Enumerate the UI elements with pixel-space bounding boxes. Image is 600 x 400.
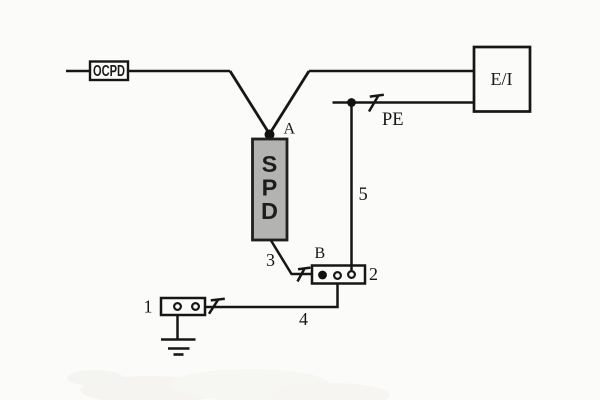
svg-text:2: 2	[369, 264, 378, 284]
svg-text:5: 5	[359, 185, 368, 205]
terminal circle (open, left)	[174, 303, 181, 310]
svg-text:D: D	[261, 198, 278, 224]
E/I equipment box	[474, 47, 530, 112]
PE junction dot	[347, 98, 356, 107]
svg-text:4: 4	[299, 309, 308, 329]
wire 5: vertical bonding conductor from PE junction down to block 2	[350, 103, 353, 272]
svg-text:1: 1	[144, 297, 153, 317]
svg-text:A: A	[284, 121, 296, 138]
wire: left diagonal down to node A	[230, 71, 270, 134]
ground lead from block 1	[176, 315, 179, 340]
terminal block 2 (equipotential bonding bar)	[312, 266, 365, 284]
PE wire: horizontal run to E/I	[333, 101, 475, 104]
svg-text:3: 3	[266, 250, 275, 270]
conductor tick on wire 3	[298, 268, 311, 282]
wire: left service lead into OCPD	[66, 70, 90, 73]
svg-text:OCPD: OCPD	[93, 63, 125, 80]
wire: top run to E/I box	[309, 70, 474, 73]
wire: right diagonal up from node A	[270, 71, 310, 134]
terminal block 1 (earthing bar)	[161, 298, 205, 315]
wire 4: from terminal block 1 to block 2 bottom	[205, 284, 338, 308]
svg-text:E/I: E/I	[491, 69, 513, 89]
terminal circle (open, middle)	[334, 272, 341, 279]
terminal circle (open, right)	[348, 271, 355, 278]
node A junction dot	[265, 130, 275, 140]
ground symbol	[161, 338, 196, 341]
svg-text:PE: PE	[382, 110, 404, 130]
terminal dot (filled)	[318, 271, 327, 280]
conductor tick on wire 4	[209, 299, 225, 314]
wire 3: SPD to terminal block B	[271, 241, 312, 275]
conductor tick on PE wire	[369, 95, 384, 112]
wire: OCPD to V drop	[128, 70, 230, 73]
terminal circle (open, right)	[192, 303, 199, 310]
SPD surge protective device box	[253, 139, 288, 240]
OCPD overcurrent protective device box	[90, 62, 128, 81]
svg-text:P: P	[262, 174, 278, 200]
svg-text:S: S	[262, 151, 278, 177]
(decorative paper texture)	[67, 369, 390, 400]
svg-text:B: B	[315, 245, 326, 262]
